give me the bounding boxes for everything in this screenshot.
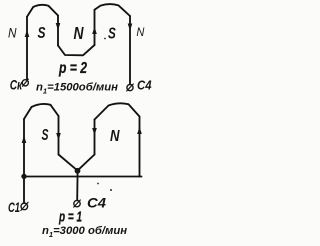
svg-text:N: N bbox=[110, 128, 120, 145]
wire: bottom diagram conductor 3 (left side coil B) bbox=[94, 120, 96, 155]
wire: top diagram conductor 1 (left side coil A) bbox=[26, 17, 28, 80]
arrow up on conductor 1 bbox=[25, 30, 30, 38]
wire: top diagram coil A end-turn (hat 1) bbox=[27, 5, 58, 17]
wire: top diagram conductor 2 (right side coil A) bbox=[57, 16, 59, 46]
arrow up on conductor 3 bbox=[92, 27, 97, 35]
svg-text:Ск: Ск bbox=[10, 77, 23, 92]
terminal C4 (top-right) bbox=[126, 84, 133, 92]
arrow down on conductor 2 bbox=[56, 23, 61, 31]
wire: slant from conductor 2 to star point bbox=[59, 155, 78, 171]
terminal Ck (top-left) bbox=[22, 79, 28, 87]
svg-text:p = 1: p = 1 bbox=[58, 209, 82, 226]
terminal C1 (bottom-left) bbox=[21, 202, 29, 211]
arrow up on bottom conductor 1 bbox=[22, 136, 27, 144]
terminal C4 (bottom-center) bbox=[73, 200, 80, 208]
svg-text:p = 2: p = 2 bbox=[58, 60, 87, 77]
wire: top diagram conductor 3 (left side coil B) bbox=[94, 10, 96, 45]
svg-text:N: N bbox=[8, 26, 17, 41]
svg-text:С1: С1 bbox=[8, 199, 20, 215]
scan speck near bottom right bbox=[110, 189, 112, 191]
wire: slant from conductor 3 to star point bbox=[78, 155, 95, 171]
wire: bottom diagram conductor 2 (right side coil A) bbox=[58, 116, 60, 155]
wire: top diagram middle valley connection bbox=[58, 45, 95, 55]
wire: bottom diagram coil A end-turn (hat 1) bbox=[24, 104, 59, 119]
arrow down on bottom conductor 2 bbox=[56, 133, 61, 141]
wire: stub from bus to terminal C1 bbox=[23, 177, 25, 204]
svg-text:С4: С4 bbox=[137, 79, 152, 93]
wire: bottom diagram conductor 1 (left side coil A) bbox=[23, 119, 25, 177]
svg-text:N: N bbox=[136, 25, 144, 39]
arrow down on conductor 4 bbox=[128, 24, 133, 32]
junction dot at star point bbox=[75, 168, 81, 174]
wire: top diagram conductor 4 (right side coil B) bbox=[129, 16, 131, 84]
arrow down on bottom conductor 3 bbox=[92, 128, 97, 136]
svg-text:С4: С4 bbox=[87, 195, 106, 211]
arrow up on bottom conductor 4 bbox=[137, 127, 142, 135]
scan speck near valley bbox=[104, 38, 106, 40]
svg-text:n1=3000 об/мин: n1=3000 об/мин bbox=[42, 225, 127, 239]
svg-text:n1=1500об/мин: n1=1500об/мин bbox=[36, 82, 118, 96]
wire: bottom diagram conductor 4 (right side coil B) bbox=[139, 117, 141, 177]
scan speck below bus bbox=[97, 183, 99, 185]
svg-text:S: S bbox=[108, 25, 116, 42]
svg-text:S: S bbox=[42, 127, 49, 144]
svg-text:S: S bbox=[38, 25, 46, 42]
wire: stub from star point to terminal C4 bbox=[76, 171, 78, 201]
wire: top diagram coil B end-turn (hat 2) bbox=[95, 4, 131, 16]
svg-text:N: N bbox=[74, 23, 84, 43]
wire: bottom diagram coil B end-turn (hat 2) bbox=[95, 103, 140, 119]
wire: bottom bus bar bbox=[23, 176, 142, 178]
junction dot at bus left bbox=[21, 174, 26, 179]
